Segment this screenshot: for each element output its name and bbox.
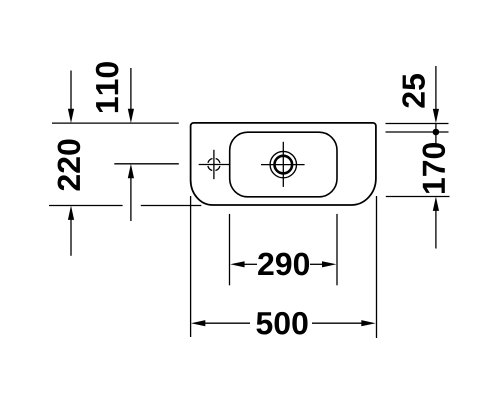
dim 110 upper arrowhead <box>128 109 134 123</box>
dim 110 lower arrowhead <box>128 164 134 178</box>
dim 500 left arrowhead <box>191 320 205 326</box>
extension line right top <box>386 123 449 125</box>
label 25 <box>402 74 425 108</box>
tap hole centerline horizontal <box>199 164 230 166</box>
extension line 290 right <box>336 214 338 285</box>
dim 170 arrowhead <box>433 197 439 211</box>
dim 290 right arrowhead <box>322 261 336 267</box>
extension line 500 right <box>376 196 378 338</box>
dim 110 lower arrow line <box>130 177 132 221</box>
label 110 <box>96 62 119 112</box>
dim 290 left arrowhead <box>230 261 244 267</box>
extension line right bottom <box>386 196 450 198</box>
drain inner circle <box>275 156 293 174</box>
label 220 <box>58 140 81 191</box>
dim 500 right line <box>312 322 362 324</box>
extension line 500 left <box>190 196 192 337</box>
dim 290 right line <box>310 263 323 265</box>
dim 110 upper arrow line <box>130 68 132 110</box>
dim 25 end dot <box>433 129 440 136</box>
extension line bottom left segment B <box>141 205 202 207</box>
drain outer circle <box>270 151 296 177</box>
drain centerline vertical <box>282 142 284 187</box>
tap hole centerline vertical <box>213 150 215 179</box>
dim 500 left line <box>204 322 250 324</box>
dim 25 arrowhead <box>433 109 439 123</box>
extension line bottom left segment A <box>49 205 123 207</box>
inner basin <box>230 132 337 197</box>
sink outer outline <box>191 123 376 205</box>
label 170 <box>422 143 445 193</box>
dim 500 right arrowhead <box>361 320 375 326</box>
extension line right second <box>386 131 449 133</box>
dim 290 left line <box>244 263 258 265</box>
dim 220 lower arrowhead <box>68 206 74 220</box>
tap hole dashed circle <box>208 158 220 170</box>
extension line mid left (tap axis) <box>114 163 179 165</box>
label 500 <box>256 312 307 335</box>
dim 220 upper arrow line <box>70 71 72 111</box>
extension line 290 left <box>229 214 231 285</box>
extension line top left <box>52 122 179 124</box>
dim 220 lower arrow line <box>70 219 72 256</box>
dim 220 upper arrowhead <box>68 109 74 123</box>
dim 25 connector line <box>435 124 437 144</box>
dim 170 arrow line <box>435 210 437 249</box>
label 290 <box>258 253 309 276</box>
drain centerline horizontal <box>261 164 305 166</box>
dim 25 arrow line <box>435 66 437 109</box>
